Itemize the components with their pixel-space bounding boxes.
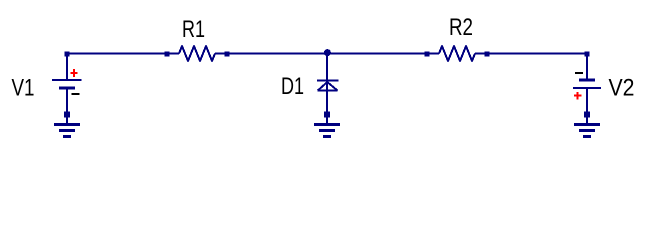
svg-text:R2: R2 (449, 14, 473, 41)
svg-text:R1: R1 (182, 16, 205, 43)
svg-text:D1: D1 (281, 73, 304, 100)
svg-text:V2: V2 (609, 75, 635, 102)
svg-text:V1: V1 (12, 75, 35, 102)
